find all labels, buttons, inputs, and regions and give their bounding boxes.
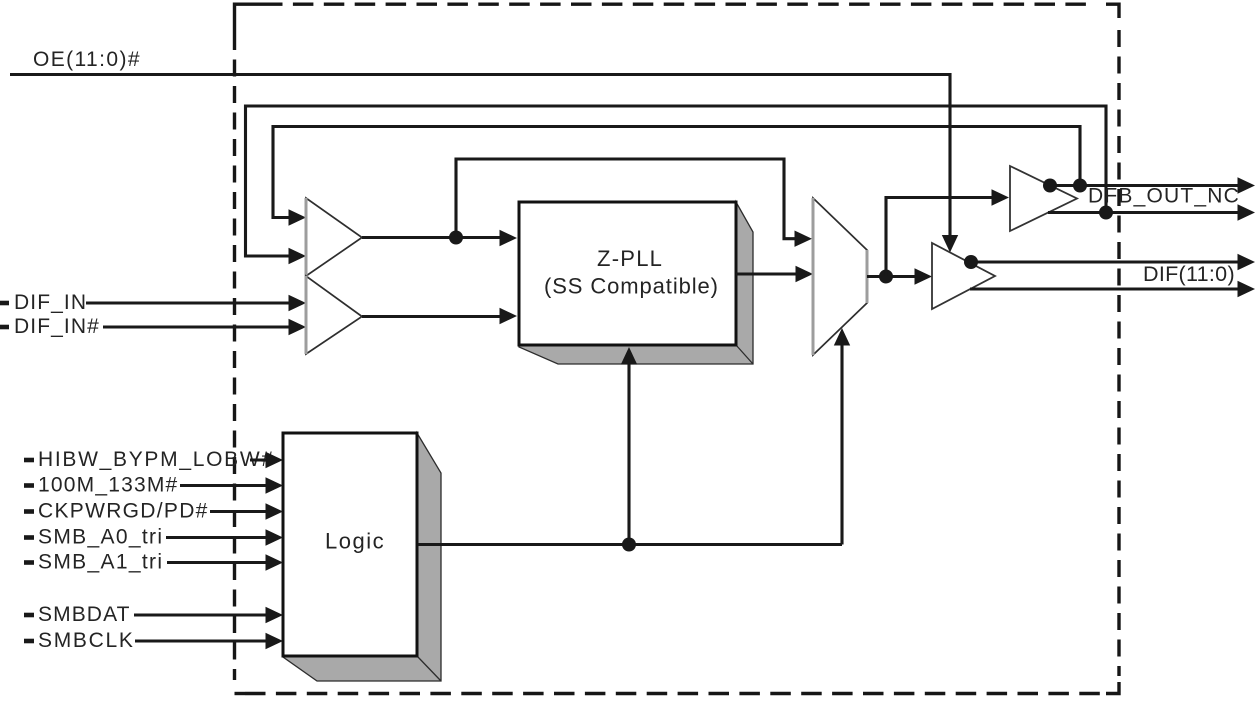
svg-text:SMB_A0_tri: SMB_A0_tri xyxy=(38,526,163,549)
svg-text:HIBW_BYPM_LOBW#: HIBW_BYPM_LOBW# xyxy=(38,448,275,471)
node DFB edge junction xyxy=(1043,179,1057,193)
svg-text:OE(11:0)#: OE(11:0)# xyxy=(33,48,141,71)
wire CKPWRGD/PD# xyxy=(210,510,267,513)
wire DIF out true xyxy=(971,260,1238,263)
Logic block U7 xyxy=(283,433,417,656)
node 100M_133M# label xyxy=(24,474,178,497)
svg-text:Logic: Logic xyxy=(325,529,385,554)
svg-text:DFB_OUT_NC: DFB_OUT_NC xyxy=(1088,185,1240,208)
wire SMB_A1_tri xyxy=(167,561,267,564)
wire feedback A upper DFB out to U1 upper input xyxy=(273,127,1080,218)
Z-PLL block U3 xyxy=(519,202,736,345)
node SMBCLK label xyxy=(24,629,135,652)
svg-text:CKPWRGD/PD#: CKPWRGD/PD# xyxy=(38,500,209,523)
node CKPWRGD/PD# label xyxy=(24,500,209,523)
wire DFB_OUT complement xyxy=(1048,211,1238,214)
wire U2 output to PLL fb input xyxy=(362,315,501,318)
wire SMBDAT xyxy=(134,613,267,616)
wire SMBCLK xyxy=(135,639,267,642)
node SMB_A1_tri label xyxy=(24,551,163,574)
Logic block shadow xyxy=(283,433,441,681)
node control junction xyxy=(622,538,636,552)
wire U1 output to PLL ref input xyxy=(362,236,501,239)
Z-PLL block shadow xyxy=(519,202,753,364)
wire OE input xyxy=(10,75,950,241)
wire PLL bypass path xyxy=(456,159,796,239)
wire feedback B lower DFB out to U1 lower input xyxy=(246,106,1107,256)
wire DIF_IN xyxy=(86,301,290,304)
wire SMB_A0_tri xyxy=(166,536,267,539)
node HIBW_BYPM_LOBW# label xyxy=(24,448,275,471)
svg-text:Z-PLL: Z-PLL xyxy=(597,246,663,271)
svg-text:(SS Compatible): (SS Compatible) xyxy=(544,274,719,299)
node feedback B junction xyxy=(1099,206,1113,220)
wire OE arrow into DIF output buffer xyxy=(942,235,958,253)
node DIF_IN label xyxy=(0,291,87,314)
buffer U2 DIF_IN input buffer xyxy=(306,276,362,354)
wire Logic control bus xyxy=(418,543,842,546)
svg-text:DIF_IN#: DIF_IN# xyxy=(14,315,100,338)
buffer U6 DIF output buffer xyxy=(932,243,995,309)
wire mux output xyxy=(867,275,916,278)
node bypass tap junction xyxy=(449,231,463,245)
wire DIF out complement xyxy=(970,287,1238,290)
svg-text:SMBCLK: SMBCLK xyxy=(38,629,135,652)
wire control to PLL xyxy=(627,364,630,545)
mux U4 xyxy=(813,198,867,355)
wire mux output to DFB buffer xyxy=(886,198,993,277)
buffer U1 feedback input buffer xyxy=(306,198,362,276)
svg-text:SMB_A1_tri: SMB_A1_tri xyxy=(38,551,163,574)
svg-text:DIF(11:0): DIF(11:0) xyxy=(1143,262,1235,286)
svg-text:DIF_IN: DIF_IN xyxy=(14,291,87,314)
node DIF edge junction xyxy=(964,255,978,269)
wire control to mux select xyxy=(840,344,843,545)
buffer U5 DFB output buffer xyxy=(1010,166,1077,231)
wire 100M_133M# xyxy=(180,484,267,487)
node mux output junction xyxy=(879,270,893,284)
svg-text:100M_133M#: 100M_133M# xyxy=(38,474,178,497)
wire DIF_IN# xyxy=(103,325,290,328)
node SMB_A0_tri label xyxy=(24,526,163,549)
svg-text:SMBDAT: SMBDAT xyxy=(38,603,131,626)
wire HIBW_BYPM_LOBW# xyxy=(250,458,267,461)
dashed chip boundary xyxy=(235,4,1120,693)
node DIF_IN# label xyxy=(0,315,100,338)
node SMBDAT label xyxy=(24,603,131,626)
node feedback A junction xyxy=(1073,179,1087,193)
wire PLL output to mux xyxy=(736,272,797,275)
wire DFB_OUT true xyxy=(1050,184,1238,187)
